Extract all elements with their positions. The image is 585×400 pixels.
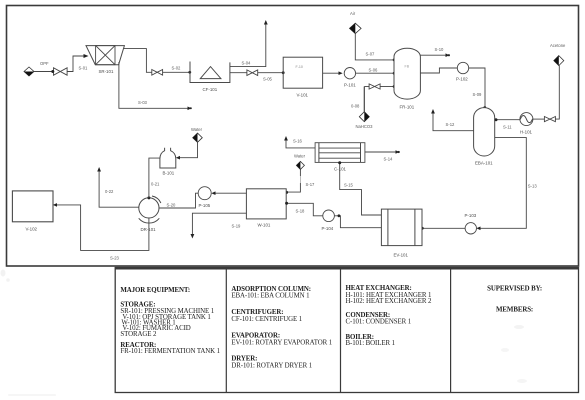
svg-text:EBA-101: EBA COLUMN 1: EBA-101: EBA COLUMN 1 bbox=[231, 293, 310, 300]
wire FR-101 to P-102 bbox=[420, 68, 457, 73]
wire S-23 DR-101 to V-102 bbox=[56, 205, 149, 251]
wire valve to CF-101 bbox=[163, 71, 190, 73]
arrow into V-102 bbox=[53, 203, 57, 207]
svg-text:HEAT EXCHANGER:: HEAT EXCHANGER: bbox=[346, 285, 412, 292]
svg-text:P-102: P-102 bbox=[456, 76, 468, 81]
junction at EV-101 right bbox=[421, 227, 424, 230]
valve on acetone product line bbox=[544, 117, 555, 122]
junction at V-101 wall bbox=[282, 71, 285, 74]
svg-text:F-10: F-10 bbox=[296, 65, 303, 69]
fermentation tank FR-101 bbox=[394, 48, 420, 109]
node OPF source diamond bbox=[24, 61, 49, 76]
arrow S-22 up bbox=[97, 167, 101, 172]
junction at CF-101 wall bbox=[188, 71, 191, 74]
svg-text:S-11: S-11 bbox=[503, 125, 512, 130]
wire valve to FR-101 bbox=[380, 86, 394, 88]
wire P-103 to EV-101 bbox=[422, 227, 465, 229]
svg-text:FB: FB bbox=[405, 65, 410, 69]
svg-text:S-18: S-18 bbox=[296, 209, 306, 214]
valve on stream S-01 bbox=[54, 68, 68, 75]
svg-text:OPF: OPF bbox=[40, 61, 49, 66]
svg-text:C-101: C-101 bbox=[334, 166, 347, 171]
junction at valve inlet bbox=[51, 70, 54, 73]
arrow S-03 end bbox=[188, 107, 192, 111]
junction at C-101 bottom bbox=[338, 161, 341, 164]
pump P-101 bbox=[344, 68, 356, 88]
wire Air to FR-101 (S-07) bbox=[355, 34, 394, 60]
svg-text:EBA-101: EBA-101 bbox=[475, 161, 493, 166]
legend column 1 text bbox=[120, 287, 220, 355]
legend column 3 text bbox=[346, 285, 432, 347]
svg-text:MAJOR EQUIPMENT:: MAJOR EQUIPMENT: bbox=[120, 287, 190, 294]
junction S-11 at EBA-101 bbox=[495, 118, 498, 121]
arrow S-16 up bbox=[284, 136, 288, 141]
svg-text:NaHCO3: NaHCO3 bbox=[356, 124, 374, 129]
pump P-102 bbox=[456, 62, 469, 81]
svg-text:0-08: 0-08 bbox=[351, 104, 360, 109]
svg-text:EV-101: EV-101 bbox=[394, 253, 409, 258]
rotary evaporator EV-101 bbox=[381, 209, 422, 258]
svg-text:V-102: V-102 bbox=[26, 226, 38, 231]
junction after P-104 bbox=[338, 214, 341, 217]
wire P-102 to EBA-101 (S-09) bbox=[469, 68, 485, 107]
arrow S-04 up bbox=[264, 20, 268, 25]
svg-text:S-17: S-17 bbox=[306, 182, 316, 187]
svg-text:H-101: H-101 bbox=[520, 130, 533, 135]
valve on stream S-02 bbox=[152, 70, 163, 76]
wire S-16 vent from C-101 bbox=[286, 140, 315, 148]
wire OPF to valve bbox=[34, 71, 53, 73]
wire P-104 to EV-101 bbox=[334, 216, 381, 228]
svg-text:W-101: W-101 bbox=[258, 223, 271, 228]
arrow S-10 end bbox=[446, 53, 450, 57]
arrow S-19 down bbox=[191, 234, 195, 239]
svg-text:MEMBERS:: MEMBERS: bbox=[496, 306, 533, 313]
svg-text:SUPERVISED BY:: SUPERVISED BY: bbox=[487, 285, 542, 292]
arrow S-12 up bbox=[431, 109, 435, 114]
node Water source diamond (washer) bbox=[294, 153, 306, 169]
legend table frame bbox=[115, 268, 578, 393]
arrow into B-101 bbox=[176, 156, 180, 160]
svg-text:H-102: HEAT EXCHANGER 2: H-102: HEAT EXCHANGER 2 bbox=[346, 298, 432, 305]
svg-text:S-19: S-19 bbox=[232, 224, 242, 229]
svg-text:B-101: BOILER 1: B-101: BOILER 1 bbox=[346, 340, 396, 347]
wire W-101 to P-105 bbox=[215, 192, 246, 194]
junction S-17 at W-101 bbox=[285, 191, 288, 194]
wire valve to SR-101 bbox=[67, 56, 84, 72]
node NaHCO3 source diamond bbox=[356, 112, 374, 130]
svg-text:DRYER:: DRYER: bbox=[231, 355, 257, 362]
svg-text:S-07: S-07 bbox=[366, 51, 376, 56]
wire V-101 to P-101 bbox=[323, 72, 341, 74]
junction S-09 at EBA-101 top bbox=[483, 106, 486, 109]
svg-text:S-15: S-15 bbox=[344, 182, 354, 187]
wire S-03 from SR-101 bottom bbox=[119, 62, 188, 108]
legend column 2 text bbox=[231, 286, 332, 370]
wire S-18 W-101 to P-104 bbox=[286, 203, 323, 216]
wire Water to W-101 (S-17) bbox=[299, 169, 301, 176]
wire S-19 W-101 drain bbox=[192, 213, 246, 235]
rotary dryer DR-101 bbox=[139, 196, 161, 232]
node Water source diamond (boiler) bbox=[191, 127, 203, 142]
node Acetone product diamond bbox=[550, 43, 566, 66]
svg-text:V-101: V-101 bbox=[297, 93, 309, 98]
svg-text:S-23: S-23 bbox=[110, 256, 120, 261]
washer W-101 bbox=[246, 189, 286, 228]
EBA column EBA-101 bbox=[474, 108, 495, 166]
centrifuge CF-101 bbox=[190, 62, 230, 93]
pressing machine SR-101 bbox=[86, 46, 124, 75]
node Air source diamond bbox=[350, 11, 362, 34]
svg-text:S-12: S-12 bbox=[446, 122, 456, 127]
wire S-10 vent from FR-101 bbox=[420, 54, 447, 56]
wire S-22 vent from DR-101 bbox=[99, 171, 139, 207]
wire S-12 from EBA-101 left bbox=[433, 113, 474, 131]
svg-text:SR-101: SR-101 bbox=[99, 69, 114, 74]
svg-text:S-05: S-05 bbox=[263, 76, 273, 81]
svg-text:EVAPORATOR:: EVAPORATOR: bbox=[231, 333, 280, 340]
svg-text:C-101: CONDENSER 1: C-101: CONDENSER 1 bbox=[346, 319, 412, 326]
heat exchanger H-101 bbox=[520, 113, 533, 135]
wire Water to B-101 bbox=[179, 142, 198, 157]
arrow into P-103 bbox=[476, 227, 480, 231]
svg-text:S-13: S-13 bbox=[528, 184, 538, 189]
svg-text:0-22: 0-22 bbox=[105, 189, 114, 194]
wire NaHCO3 up to valve (S-08) bbox=[363, 87, 365, 112]
svg-text:EV-101: ROTARY EVAPORATOR 1: EV-101: ROTARY EVAPORATOR 1 bbox=[231, 340, 332, 347]
junction S-06 at FR-101 bbox=[393, 72, 396, 75]
wire S-13 from EBA-101 to P-103 bbox=[478, 138, 526, 229]
arrow into P-101 bbox=[339, 71, 343, 75]
wire valve to V-101 bbox=[258, 72, 284, 74]
wire B-101 to DR-101 (S-21) bbox=[149, 158, 160, 198]
arrow into P-105 bbox=[211, 191, 215, 195]
condenser C-101 bbox=[315, 143, 365, 172]
wire SR-101 out to valve S-02 bbox=[124, 49, 152, 73]
svg-text:Water: Water bbox=[191, 127, 203, 132]
svg-text:CF-101: CF-101 bbox=[203, 87, 218, 92]
svg-text:S-01: S-01 bbox=[79, 66, 89, 71]
svg-text:S-16: S-16 bbox=[293, 138, 303, 143]
svg-text:DR-101: DR-101 bbox=[141, 227, 157, 232]
wire S-15 C-101 to EV-101 bbox=[340, 162, 382, 215]
pump P-103 bbox=[465, 213, 477, 234]
wire S-14 from C-101 right bbox=[365, 151, 396, 153]
valve on stream S-08 bbox=[369, 84, 380, 89]
svg-text:S-02: S-02 bbox=[172, 65, 182, 70]
svg-text:S-10: S-10 bbox=[435, 47, 445, 52]
junction at DR-101 top bbox=[147, 196, 150, 199]
outer diagram border frame bbox=[7, 6, 579, 267]
svg-text:FR-101: FERMENTATION TANK 1: FR-101: FERMENTATION TANK 1 bbox=[120, 348, 220, 355]
svg-text:P-101: P-101 bbox=[344, 83, 356, 88]
valve on stream S-05 bbox=[247, 70, 258, 76]
arrow S-14 end bbox=[396, 150, 400, 154]
junction S-07 at FR-101 bbox=[393, 58, 396, 61]
svg-text:0-21: 0-21 bbox=[151, 182, 160, 187]
svg-text:CF-101: CENTRIFUGE 1: CF-101: CENTRIFUGE 1 bbox=[231, 316, 302, 323]
wire valve up to product node bbox=[555, 66, 559, 120]
svg-text:B-101: B-101 bbox=[163, 171, 175, 176]
svg-text:DR-101: ROTARY DRYER 1: DR-101: ROTARY DRYER 1 bbox=[231, 363, 312, 370]
wire S-04 vent from CF-101 bbox=[230, 24, 266, 67]
svg-text:S-20: S-20 bbox=[167, 202, 177, 207]
pump P-105 bbox=[198, 187, 211, 208]
svg-text:P-105: P-105 bbox=[199, 203, 211, 208]
svg-text:S-06: S-06 bbox=[369, 67, 379, 72]
junction S-18 at W-101 bbox=[285, 202, 288, 205]
svg-text:S-09: S-09 bbox=[473, 92, 483, 97]
wire CF-101 to valve S-05 bbox=[230, 72, 247, 74]
wire H-101 to valve bbox=[533, 118, 545, 120]
svg-text:Water: Water bbox=[294, 153, 306, 158]
legend column 4 text bbox=[487, 285, 542, 383]
svg-text:P-103: P-103 bbox=[465, 213, 477, 218]
svg-text:STORAGE 2: STORAGE 2 bbox=[120, 331, 157, 338]
svg-text:S-04: S-04 bbox=[242, 60, 252, 65]
storage tank V-101 bbox=[283, 57, 322, 97]
wire P-101 to FR-101 bbox=[356, 72, 394, 74]
junction S-08 at FR-101 bbox=[393, 85, 396, 88]
svg-text:P-104: P-104 bbox=[322, 226, 334, 231]
arrow into SR-101 bbox=[84, 54, 89, 58]
storage tank V-102 bbox=[12, 191, 53, 232]
svg-text:S-03: S-03 bbox=[138, 100, 148, 105]
svg-text:Acetone: Acetone bbox=[550, 43, 566, 48]
svg-text:S-14: S-14 bbox=[384, 156, 394, 161]
wire P-105 down to DR-101 (S-20) bbox=[159, 193, 198, 208]
pump P-104 bbox=[322, 210, 335, 231]
faint scan artifacts bbox=[1, 270, 57, 396]
boiler B-101 bbox=[160, 148, 176, 176]
svg-text:FR-101: FR-101 bbox=[400, 104, 415, 109]
wire EBA-101 to H-101 (S-11) bbox=[495, 119, 520, 121]
svg-text:Air: Air bbox=[350, 11, 356, 16]
